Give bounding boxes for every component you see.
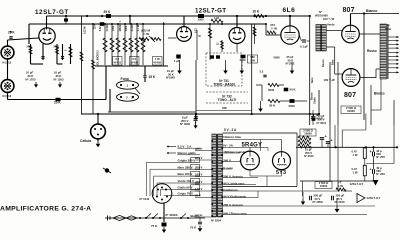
svg-text:¼ W: ¼ W bbox=[271, 26, 277, 30]
svg-text:Giallo 90 V: Giallo 90 V bbox=[178, 186, 193, 190]
svg-text:Bleu: Bleu bbox=[332, 59, 335, 65]
svg-text:3.3: 3.3 bbox=[260, 70, 264, 74]
svg-text:25 K: 25 K bbox=[54, 101, 61, 105]
svg-text:Bianco: Bianco bbox=[366, 9, 377, 13]
svg-text:10000: 10000 bbox=[304, 132, 312, 136]
svg-text:160 V: 160 V bbox=[195, 173, 202, 177]
svg-text:3300: 3300 bbox=[198, 18, 204, 22]
svg-text:100 ¼ W: 100 ¼ W bbox=[323, 17, 335, 21]
svg-text:Griglia 280 V: Griglia 280 V bbox=[178, 158, 196, 162]
svg-text:25 K: 25 K bbox=[149, 75, 156, 79]
svg-text:350 V: 350 V bbox=[318, 117, 325, 121]
svg-text:75 K: 75 K bbox=[190, 226, 197, 230]
svg-text:MICRO 1: MICRO 1 bbox=[119, 20, 122, 31]
svg-text:0.22: 0.22 bbox=[99, 26, 102, 31]
svg-text:+: + bbox=[370, 168, 372, 172]
svg-text:680: 680 bbox=[250, 55, 255, 59]
svg-text:x2 Bianco bleu: x2 Bianco bleu bbox=[221, 135, 242, 139]
svg-text:200 V. Arancio: 200 V. Arancio bbox=[223, 175, 243, 179]
svg-text:1 W: 1 W bbox=[250, 59, 255, 63]
svg-text:Nº431: Nº431 bbox=[114, 60, 122, 64]
svg-text:AMPLIFICATORE G. 274-A: AMPLIFICATORE G. 274-A bbox=[0, 206, 91, 213]
svg-text:3300: 3300 bbox=[240, 58, 246, 62]
svg-text:Giallo: Giallo bbox=[314, 97, 317, 104]
svg-text:0.22 M: 0.22 M bbox=[84, 27, 87, 34]
svg-text:Verde 140 V: Verde 140 V bbox=[178, 179, 194, 183]
svg-text:840 ( Rosso nero: 840 ( Rosso nero bbox=[223, 212, 247, 216]
svg-text:1 M: 1 M bbox=[214, 16, 219, 20]
svg-text:Rosso: Rosso bbox=[322, 59, 325, 67]
svg-text:12SL7-GT: 12SL7-GT bbox=[195, 8, 226, 15]
svg-text:25 K: 25 K bbox=[94, 24, 97, 29]
svg-text:5000: 5000 bbox=[268, 88, 275, 92]
svg-text:200 V: 200 V bbox=[195, 166, 202, 170]
svg-text:44 V Gialloverde: 44 V Gialloverde bbox=[223, 195, 246, 199]
svg-text:2700: 2700 bbox=[54, 46, 60, 49]
svg-text:Bianco: Bianco bbox=[374, 92, 385, 96]
svg-text:5000: 5000 bbox=[274, 56, 281, 60]
svg-text:Nº 2009: Nº 2009 bbox=[313, 200, 323, 204]
svg-text:VOL. MICRO 2: VOL. MICRO 2 bbox=[98, 50, 100, 66]
svg-text:50 K: 50 K bbox=[290, 88, 297, 92]
svg-text:Nº 4030: Nº 4030 bbox=[180, 122, 190, 126]
svg-text:Nero: Nero bbox=[311, 77, 314, 83]
svg-text:12SL7-GT: 12SL7-GT bbox=[350, 182, 364, 186]
svg-text:0.5: 0.5 bbox=[132, 57, 136, 61]
svg-text:5R4GY: 5R4GY bbox=[242, 143, 263, 149]
svg-text:0.1 µF: 0.1 µF bbox=[300, 45, 308, 49]
svg-text:140 V: 140 V bbox=[195, 187, 202, 191]
svg-text:10 K: 10 K bbox=[253, 10, 260, 14]
svg-text:Nº1762: Nº1762 bbox=[286, 62, 295, 66]
svg-text:250 V. Arancio: 250 V. Arancio bbox=[223, 203, 243, 207]
svg-text:6. nero: 6. nero bbox=[223, 166, 233, 170]
svg-text:1 W: 1 W bbox=[338, 184, 343, 188]
svg-text:25 K: 25 K bbox=[8, 31, 15, 35]
svg-text:TONO - BASSI: TONO - BASSI bbox=[213, 83, 235, 87]
svg-text:6.3 V - 3 A: 6.3 V - 3 A bbox=[178, 144, 193, 148]
svg-text:240 V: 240 V bbox=[223, 159, 231, 163]
svg-text:12SL7-GT: 12SL7-GT bbox=[35, 9, 69, 16]
svg-text:N° 250: N° 250 bbox=[376, 155, 385, 159]
svg-text:¼ W: ¼ W bbox=[143, 32, 149, 36]
svg-text:33K: 33K bbox=[222, 106, 227, 110]
svg-text:Nº402: Nº402 bbox=[154, 60, 162, 64]
svg-text:660a: 660a bbox=[385, 27, 391, 31]
svg-text:100 ¼ W: 100 ¼ W bbox=[324, 78, 336, 82]
svg-text:1 µF: 1 µF bbox=[174, 59, 180, 63]
svg-text:5000: 5000 bbox=[289, 104, 296, 108]
svg-text:6L6: 6L6 bbox=[283, 7, 296, 14]
svg-text:160biancoverde: 160biancoverde bbox=[223, 150, 245, 154]
svg-text:10000: 10000 bbox=[320, 184, 328, 188]
svg-text:Nº1863: Nº1863 bbox=[166, 76, 175, 80]
svg-text:5V - 2A: 5V - 2A bbox=[223, 143, 234, 147]
svg-text:+: + bbox=[325, 135, 327, 139]
svg-text:Nº 4030/b: Nº 4030/b bbox=[166, 213, 178, 217]
svg-text:25 K: 25 K bbox=[104, 10, 111, 14]
svg-text:Nº 1043: Nº 1043 bbox=[140, 197, 150, 201]
svg-text:Verde: Verde bbox=[327, 23, 335, 27]
svg-text:Bianco giallo: Bianco giallo bbox=[178, 151, 196, 155]
svg-text:90 V: 90 V bbox=[195, 194, 201, 198]
svg-text:10000: 10000 bbox=[347, 109, 355, 113]
svg-text:+: + bbox=[370, 150, 372, 154]
svg-text:1000: 1000 bbox=[112, 25, 115, 31]
svg-text:Rosso: Rosso bbox=[367, 49, 377, 53]
svg-text:Bleu 160 V: Bleu 160 V bbox=[178, 172, 193, 176]
svg-text:Nº 2612: Nº 2612 bbox=[304, 154, 314, 158]
svg-text:N 422: N 422 bbox=[131, 24, 134, 31]
svg-text:44 V. biela nero: 44 V. biela nero bbox=[223, 182, 244, 186]
svg-text:Nº 3512: Nº 3512 bbox=[317, 121, 327, 125]
svg-text:N° 250: N° 250 bbox=[376, 172, 385, 176]
svg-text:Nº 1263: Nº 1263 bbox=[54, 78, 64, 82]
svg-text:1 W: 1 W bbox=[353, 153, 358, 157]
svg-text:N 424: N 424 bbox=[106, 24, 109, 31]
svg-text:giallo: giallo bbox=[195, 147, 203, 151]
svg-text:Nº 2010: Nº 2010 bbox=[335, 200, 345, 204]
svg-text:240 V: 240 V bbox=[195, 180, 202, 184]
svg-text:0.1 M: 0.1 M bbox=[137, 25, 140, 31]
svg-text:TONO - ALTI: TONO - ALTI bbox=[218, 98, 237, 102]
svg-text:75 K: 75 K bbox=[151, 224, 158, 228]
svg-text:10 µF: 10 µF bbox=[318, 114, 325, 118]
svg-text:807: 807 bbox=[344, 92, 356, 99]
svg-text:30 K: 30 K bbox=[269, 104, 276, 108]
svg-text:+: + bbox=[331, 139, 333, 143]
svg-text:M: M bbox=[199, 35, 201, 38]
svg-text:5 V - 2 A: 5 V - 2 A bbox=[224, 128, 237, 132]
svg-text:2700: 2700 bbox=[27, 46, 33, 49]
svg-text:0.5: 0.5 bbox=[115, 57, 119, 61]
svg-text:280 V: 280 V bbox=[195, 156, 202, 160]
svg-text:Cellula: Cellula bbox=[80, 139, 91, 143]
svg-text:1 W: 1 W bbox=[155, 57, 160, 61]
svg-text:Nº409: Nº409 bbox=[131, 60, 139, 64]
svg-text:Nº 1753: Nº 1753 bbox=[26, 78, 36, 82]
svg-text:12SL7-GT: 12SL7-GT bbox=[367, 196, 381, 200]
svg-text:1 W: 1 W bbox=[353, 170, 358, 174]
svg-text:Giallonero: Giallonero bbox=[223, 188, 238, 192]
svg-text:Nº 5204: Nº 5204 bbox=[211, 219, 221, 223]
svg-text:5000: 5000 bbox=[125, 25, 128, 31]
svg-text:ancio: ancio bbox=[195, 213, 203, 217]
svg-text:5Y3: 5Y3 bbox=[276, 170, 286, 176]
